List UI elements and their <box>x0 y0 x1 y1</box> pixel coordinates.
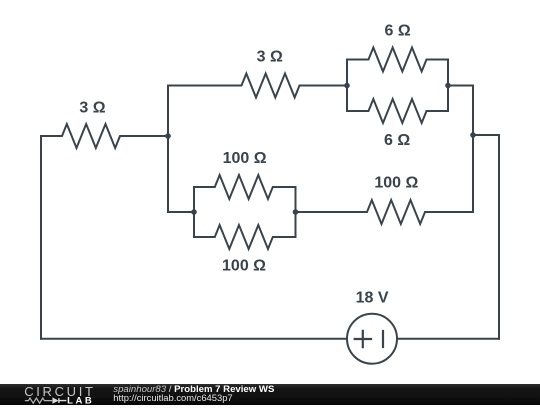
junction node 6 ohm left <box>344 83 350 89</box>
resistor R3 6 ohm parallel top <box>347 48 448 72</box>
wire node A vertical <box>167 86 169 213</box>
voltage source V1 minus bar <box>382 331 384 347</box>
svg-text:100 Ω: 100 Ω <box>223 150 267 167</box>
wire right inner vertical <box>472 86 474 213</box>
wire 100 ohm pair left stub <box>193 187 195 237</box>
svg-text:18 V: 18 V <box>356 290 389 307</box>
svg-text:6 Ω: 6 Ω <box>385 23 411 40</box>
junction node 6 ohm right <box>445 83 451 89</box>
svg-text:CIRCUIT: CIRCUIT <box>24 384 93 399</box>
footer bar <box>0 384 540 405</box>
CircuitLab logo resistor squiggle <box>25 398 52 403</box>
resistor R7 100 ohm <box>296 200 474 224</box>
CircuitLab logo diode <box>52 397 58 403</box>
voltage source V1 circle <box>347 314 397 364</box>
wire bottom right <box>397 338 499 340</box>
voltage source V1 plus sign <box>355 331 371 347</box>
wire right vertical <box>498 135 500 339</box>
wire left vertical <box>40 136 42 339</box>
wire node A to 100 ohm pair <box>168 211 194 213</box>
junction node middle right <box>293 209 299 215</box>
resistor R5 100 ohm parallel top <box>194 175 296 199</box>
wire node B to right vertical <box>473 134 499 136</box>
junction node A <box>165 133 171 139</box>
resistor R6 100 ohm parallel bottom <box>194 225 296 249</box>
wire 100 ohm pair right stub <box>295 187 297 237</box>
wire 6 ohm right stub <box>447 60 449 112</box>
resistor R4 6 ohm parallel bottom <box>347 99 448 123</box>
resistor R2 3 ohm top <box>168 74 347 98</box>
wire from 6ohm pair to corner <box>448 85 473 87</box>
svg-text:100 Ω: 100 Ω <box>222 258 266 275</box>
svg-text:3 Ω: 3 Ω <box>257 49 283 66</box>
svg-text:http://circuitlab.com/c6453p7: http://circuitlab.com/c6453p7 <box>113 392 232 403</box>
svg-text:LAB: LAB <box>67 396 92 405</box>
wire 6 ohm left stub <box>346 60 348 112</box>
svg-text:3 Ω: 3 Ω <box>79 99 105 116</box>
svg-text:100 Ω: 100 Ω <box>374 175 418 192</box>
wire bottom left <box>41 338 347 340</box>
junction node B <box>470 132 476 138</box>
resistor R1 3 ohm <box>41 124 168 148</box>
CircuitLab logo text CIRCUIT <box>24 384 93 399</box>
svg-text:6 Ω: 6 Ω <box>384 132 410 149</box>
junction node middle left <box>191 209 197 215</box>
